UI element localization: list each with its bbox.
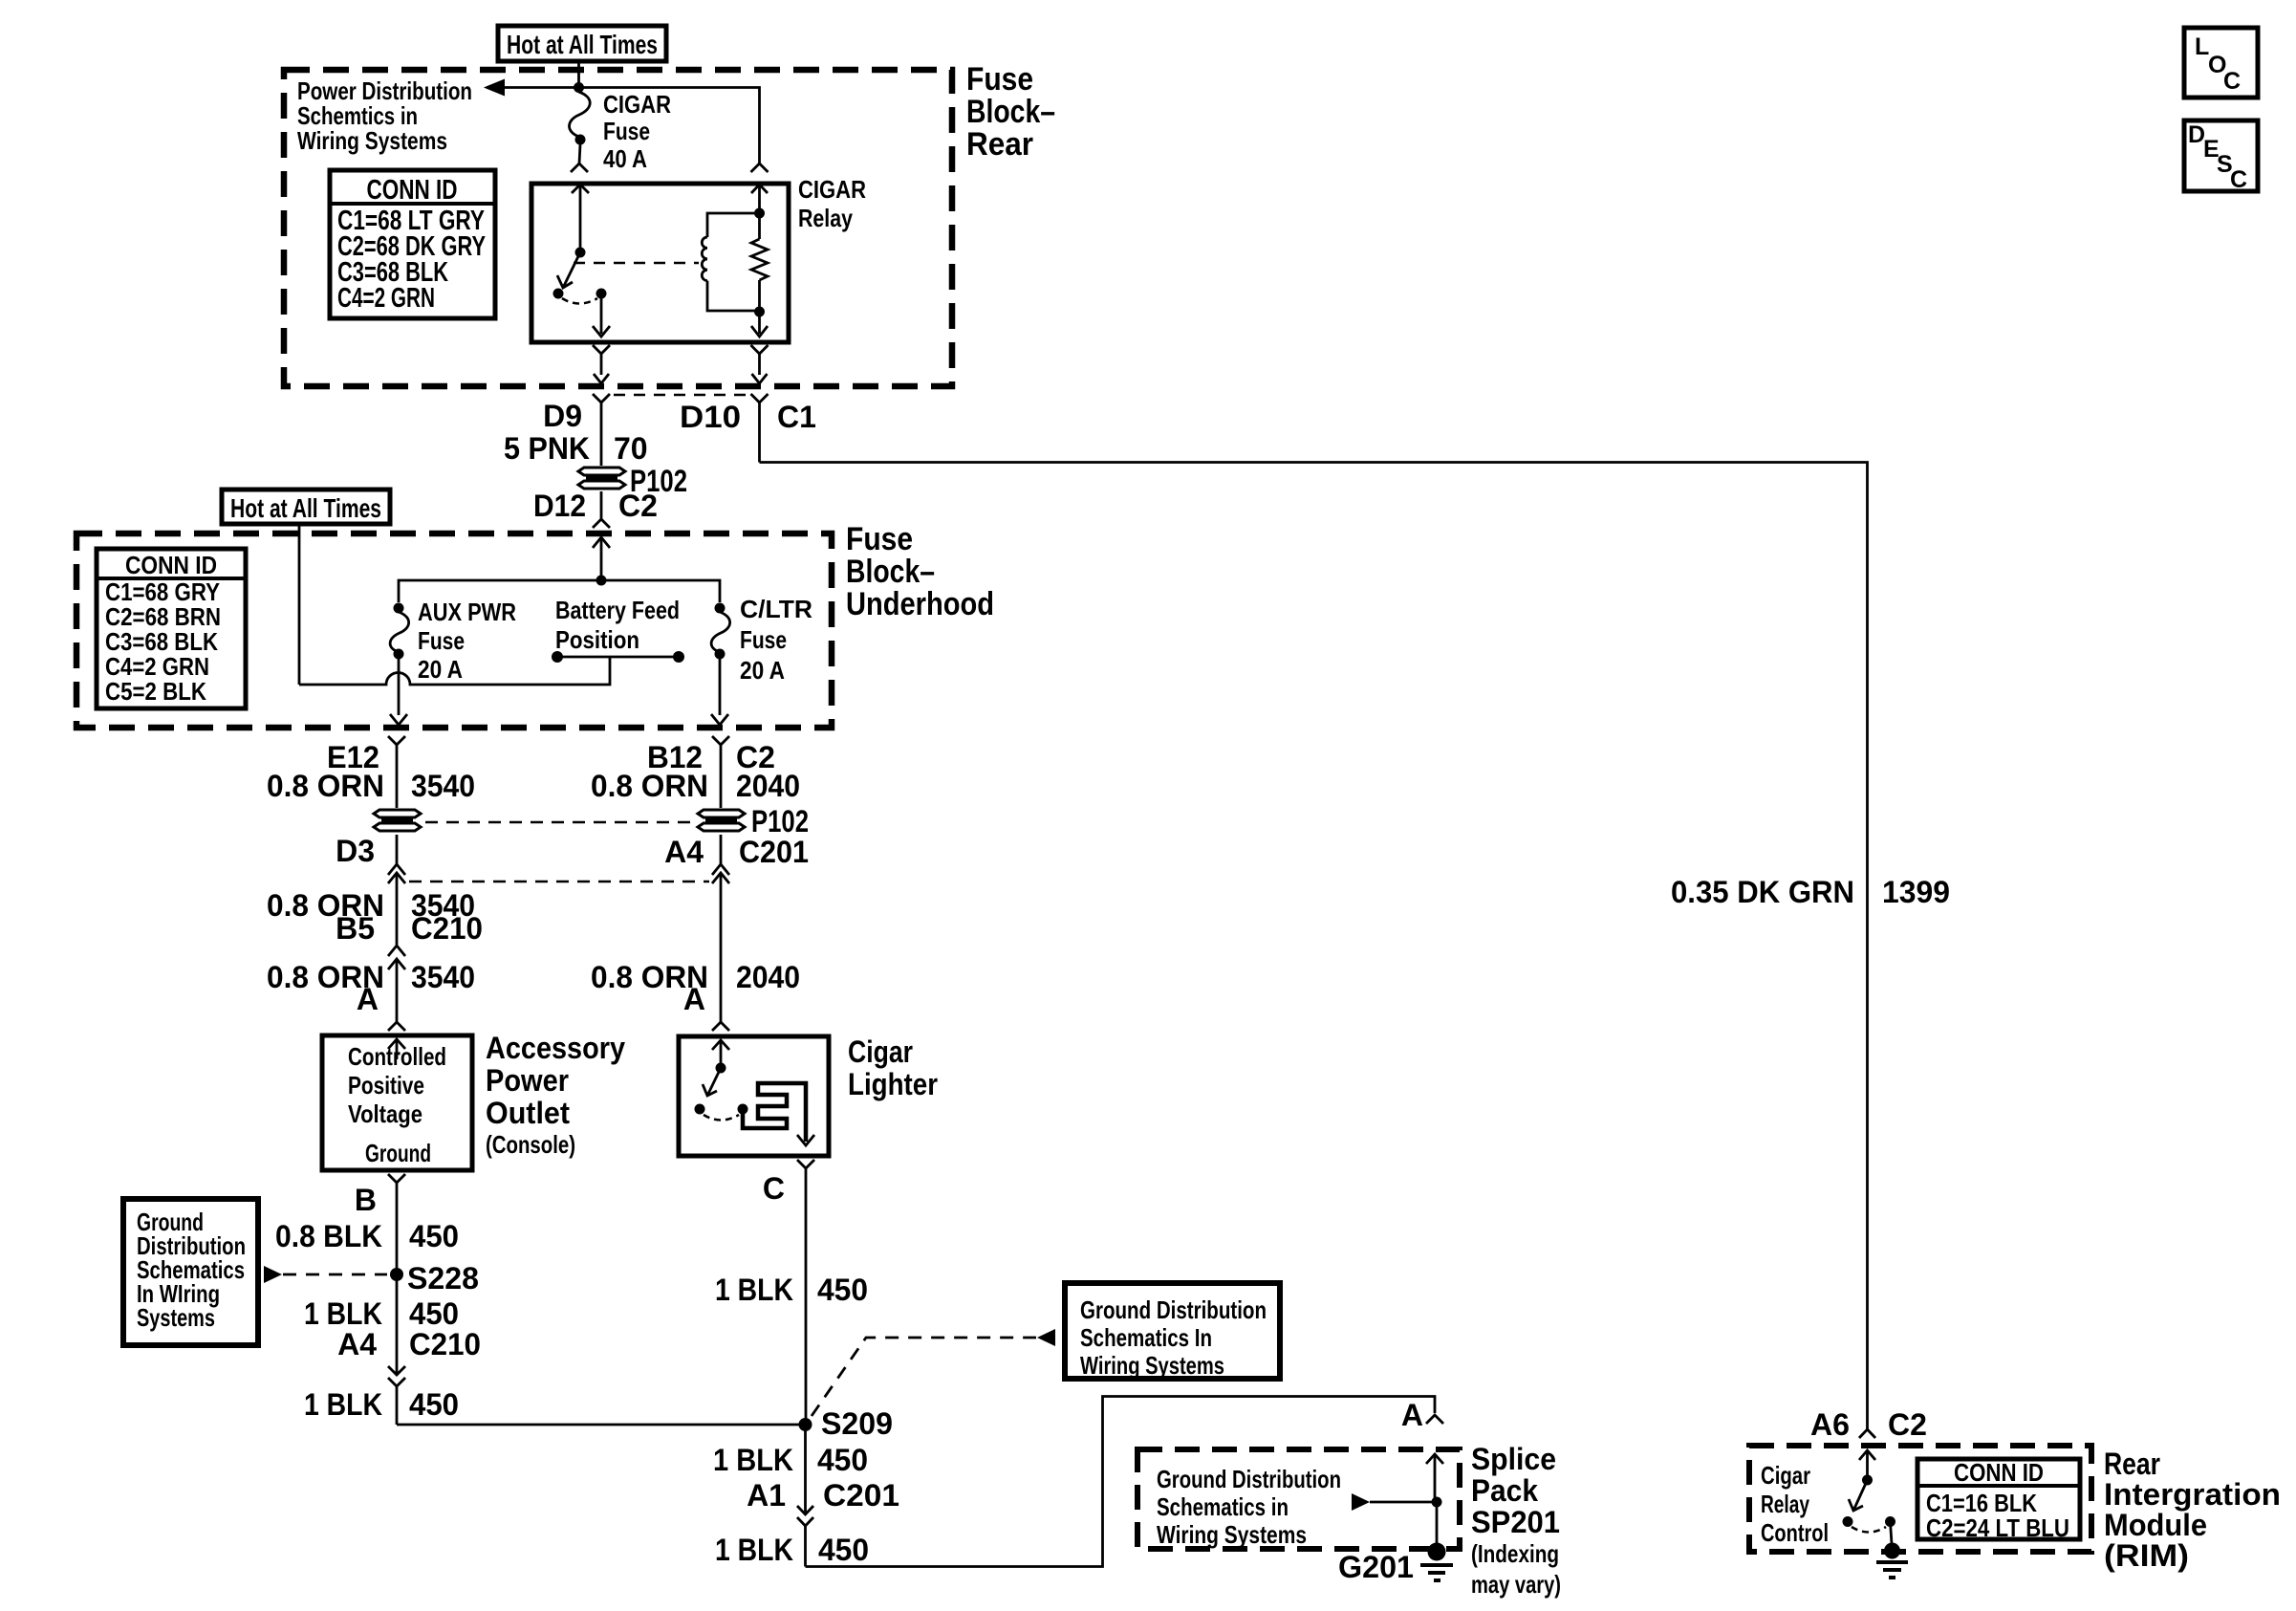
svg-text:450: 450: [409, 1219, 459, 1253]
svg-text:450: 450: [818, 1533, 869, 1567]
svg-text:Hot at All Times: Hot at All Times: [507, 30, 658, 59]
svg-text:Ground: Ground: [365, 1139, 431, 1167]
svg-text:Relay: Relay: [1761, 1490, 1809, 1518]
svg-text:C1: C1: [777, 400, 816, 434]
connector fork into relay (right): [751, 163, 769, 172]
wire: left ground run to S209: [397, 1424, 806, 1426]
relay resistor: [751, 184, 768, 317]
svg-text:Schematics In: Schematics In: [1080, 1323, 1212, 1352]
svg-text:Rear: Rear: [966, 126, 1033, 163]
fuse CIGAR 40A symbol: [570, 92, 591, 163]
connector fork C1: [751, 394, 769, 463]
label 0.35 DK GRN 1399: [1671, 875, 1950, 909]
connector fork B12: [712, 736, 729, 808]
dashed reference line to S228: [264, 1266, 387, 1283]
connector fork into splice pack: [1426, 1415, 1443, 1424]
svg-text:Power: Power: [486, 1063, 569, 1098]
svg-text:A4: A4: [664, 835, 704, 869]
svg-text:CIGAR: CIGAR: [603, 90, 671, 119]
connector fork into accessory outlet: [388, 1022, 405, 1031]
label 1 BLK 450 (bottom): [715, 1533, 869, 1567]
svg-text:AUX PWR: AUX PWR: [418, 598, 516, 626]
label: Power Distribution Schemtics in Wiring Systems: [297, 76, 472, 155]
svg-text:C2: C2: [1888, 1407, 1927, 1442]
svg-text:2040: 2040: [736, 960, 800, 994]
svg-text:3540: 3540: [411, 960, 475, 994]
svg-text:C: C: [2223, 68, 2241, 95]
svg-text:A1: A1: [747, 1478, 786, 1513]
relay switch common leg: [572, 184, 589, 258]
svg-text:3540: 3540: [411, 769, 475, 803]
Ground Distribution Schematics box (right): [1065, 1283, 1280, 1380]
label A4 C201: [664, 835, 809, 869]
svg-text:L: L: [2195, 33, 2209, 60]
svg-text:Fuse: Fuse: [966, 61, 1033, 98]
wire: fuse bus: [399, 580, 720, 602]
splice pack entry arrow: [1426, 1454, 1443, 1503]
svg-text:Fuse: Fuse: [846, 521, 913, 557]
svg-text:Lighter: Lighter: [848, 1067, 938, 1101]
Hot at All Times label box (rear): [498, 26, 666, 61]
label A6 C2: [1810, 1407, 1927, 1442]
Rear Integration Module dashed box: [1749, 1446, 2091, 1552]
label: Cigar Relay Control: [1761, 1461, 1829, 1547]
label B12 C2: [647, 740, 775, 774]
svg-text:D12: D12: [533, 489, 586, 523]
svg-text:0.8 BLK: 0.8 BLK: [275, 1219, 382, 1253]
RIM cigar relay control switch: [1843, 1450, 1896, 1533]
label 1 BLK 450 (cigar): [715, 1273, 868, 1307]
label: Rear Intergration Module (RIM): [2104, 1447, 2281, 1573]
relay coil output leg: [751, 312, 768, 337]
svg-text:1 BLK: 1 BLK: [715, 1533, 793, 1567]
label: C/LTR Fuse 20 A: [740, 595, 812, 685]
svg-text:Controlled: Controlled: [348, 1042, 446, 1071]
connector fork C below cigar lighter: [797, 1160, 814, 1425]
label: CIGAR Relay: [798, 175, 866, 232]
svg-text:Module: Module: [2104, 1508, 2207, 1542]
svg-text:C4=2 GRN: C4=2 GRN: [337, 283, 435, 314]
label 1 BLK 450 (below S209): [713, 1443, 868, 1477]
svg-text:1 BLK: 1 BLK: [713, 1443, 793, 1477]
svg-text:Fuse: Fuse: [418, 626, 465, 655]
svg-text:Rear: Rear: [2104, 1447, 2160, 1481]
wire: ground run to splice pack: [806, 1397, 1436, 1567]
svg-text:450: 450: [409, 1296, 459, 1331]
svg-text:Control: Control: [1761, 1518, 1829, 1547]
label 0.8 ORN 3540 (1): [267, 769, 475, 803]
node: bus junction: [596, 576, 607, 586]
connector P102 (D9/D12 pass-through): [578, 468, 625, 489]
connector fork E12: [388, 736, 405, 808]
relay control dashed link: [574, 262, 699, 265]
label: Battery Feed Position: [555, 596, 680, 654]
svg-text:450: 450: [409, 1387, 459, 1422]
svg-text:Accessory: Accessory: [486, 1031, 625, 1065]
LOC reference box: [2184, 28, 2258, 98]
connector fork into cigar lighter: [712, 1022, 729, 1031]
CONN ID table (RIM): [1917, 1458, 2080, 1542]
label: CIGAR Fuse 40 A: [603, 90, 671, 173]
wire: hot feed 2 down and battery feed link: [299, 524, 610, 685]
label: Splice Pack SP201 (Indexing may vary): [1471, 1442, 1561, 1599]
label 0.8 BLK 450: [275, 1219, 459, 1253]
dashed reference line S209 to ground distribution box: [812, 1329, 1055, 1416]
svg-text:Wiring Systems: Wiring Systems: [1157, 1520, 1307, 1549]
splice pack internal feed arrow: [1352, 1493, 1442, 1511]
svg-text:A: A: [1401, 1398, 1423, 1432]
label D12 C2: [533, 489, 658, 523]
wire: cigar relay control run (C1 to RIM): [760, 463, 1868, 1430]
node S228 splice: [390, 1268, 403, 1281]
svg-text:S228: S228: [407, 1261, 479, 1295]
svg-text:Fuse: Fuse: [740, 625, 787, 654]
svg-text:Voltage: Voltage: [348, 1099, 422, 1128]
svg-text:Splice: Splice: [1471, 1442, 1556, 1476]
svg-text:Cigar: Cigar: [1761, 1461, 1810, 1490]
connector: relay out left (D9 half): [593, 345, 610, 383]
svg-text:Systems: Systems: [137, 1303, 215, 1332]
svg-text:C2=24 LT BLU: C2=24 LT BLU: [1926, 1513, 2069, 1542]
svg-text:B: B: [355, 1183, 377, 1217]
svg-text:may vary): may vary): [1471, 1570, 1561, 1599]
svg-text:CIGAR: CIGAR: [798, 175, 866, 204]
svg-text:Ground Distribution: Ground Distribution: [1157, 1465, 1341, 1493]
svg-text:C: C: [2230, 166, 2247, 193]
svg-text:1 BLK: 1 BLK: [304, 1387, 382, 1422]
fuse AUX PWR symbol: [390, 603, 409, 726]
svg-text:A: A: [357, 982, 379, 1016]
connector chevrons A4/C210 down: [388, 1366, 405, 1425]
svg-text:Wiring Systems: Wiring Systems: [1080, 1351, 1224, 1380]
connector tie line P102 pair: [425, 821, 693, 824]
svg-text:Wiring Systems: Wiring Systems: [297, 126, 447, 155]
Fuse Block-Underhood dashed enclosure: [76, 521, 994, 728]
svg-text:70: 70: [614, 431, 648, 466]
svg-text:Positive: Positive: [348, 1071, 424, 1099]
svg-text:Fuse: Fuse: [603, 117, 650, 145]
wire below P102 right: [720, 835, 723, 865]
Accessory Power Outlet box: [322, 1035, 472, 1170]
label 0.8 ORN 3540 (3): [267, 960, 475, 994]
svg-text:0.8 ORN: 0.8 ORN: [591, 769, 708, 803]
svg-text:Underhood: Underhood: [846, 586, 994, 622]
label 0.8 ORN 3540 (2): [267, 888, 475, 923]
connector: relay out right (D10 half): [751, 345, 769, 383]
label: Controlled Positive Voltage / Ground: [348, 1042, 446, 1167]
Ground Distribution Schematics box (left): [123, 1199, 258, 1345]
label: Ground Distribution Schematics in Wiring Systems (splice): [1157, 1465, 1341, 1549]
svg-text:A6: A6: [1810, 1407, 1850, 1442]
connector chevrons A1/C201 down: [797, 1425, 813, 1567]
svg-text:(Console): (Console): [486, 1130, 575, 1159]
label B5 C210: [336, 911, 483, 946]
svg-text:1399: 1399: [1882, 875, 1950, 909]
relay switch arm: [553, 252, 607, 304]
connector fork D12 into underhood: [593, 491, 610, 528]
svg-text:Relay: Relay: [798, 204, 853, 232]
svg-text:Ground Distribution: Ground Distribution: [1080, 1295, 1267, 1324]
svg-text:1 BLK: 1 BLK: [715, 1273, 793, 1307]
svg-text:A: A: [683, 982, 705, 1016]
svg-text:(RIM): (RIM): [2104, 1538, 2189, 1573]
connector chevrons C201 up (right): [712, 864, 729, 1022]
svg-text:C210: C210: [409, 1327, 481, 1361]
svg-text:Block–: Block–: [966, 94, 1055, 130]
svg-text:450: 450: [817, 1443, 868, 1477]
wire below P102 left: [396, 835, 399, 865]
CONN ID table (fuse block rear): [330, 170, 495, 318]
connector tie line D9-D10: [614, 394, 747, 397]
connector chevrons below B5: [388, 946, 405, 1022]
cigar lighter switch: [695, 1040, 748, 1121]
svg-text:20 A: 20 A: [740, 656, 785, 685]
svg-text:Battery Feed: Battery Feed: [555, 596, 680, 624]
label 0.8 ORN 2040 (1): [591, 769, 800, 803]
svg-text:5 PNK: 5 PNK: [504, 431, 590, 466]
svg-text:Outlet: Outlet: [486, 1096, 570, 1130]
svg-text:C/LTR: C/LTR: [740, 595, 812, 623]
connector fork into relay (left): [571, 163, 588, 172]
svg-text:G201: G201: [1338, 1550, 1414, 1584]
svg-text:D9: D9: [543, 399, 582, 433]
accessory outlet input arrow: [388, 1039, 405, 1059]
ground G201 symbol: [1420, 1502, 1453, 1580]
svg-text:(Indexing: (Indexing: [1471, 1539, 1559, 1568]
label 5 PNK 70: [504, 431, 648, 466]
svg-text:A4: A4: [337, 1327, 377, 1361]
node: feed junction: [574, 82, 584, 93]
svg-text:S209: S209: [821, 1406, 893, 1441]
wire: power distribution branch with arrow: [484, 79, 760, 164]
svg-text:Hot at All Times: Hot at All Times: [230, 493, 381, 523]
svg-text:D10: D10: [680, 400, 741, 434]
svg-text:Cigar: Cigar: [848, 1034, 913, 1069]
battery feed position bar: [552, 651, 684, 663]
svg-text:Pack: Pack: [1471, 1473, 1538, 1508]
svg-text:C2: C2: [618, 489, 658, 523]
connector tie line C210-C201: [409, 881, 709, 883]
relay CIGAR Relay box: [531, 184, 789, 342]
svg-text:0.8 ORN: 0.8 ORN: [267, 769, 384, 803]
svg-text:2040: 2040: [736, 769, 800, 803]
svg-text:C5=2 BLK: C5=2 BLK: [105, 677, 206, 706]
relay switch output leg: [593, 294, 610, 337]
svg-text:P102: P102: [751, 804, 809, 838]
svg-text:SP201: SP201: [1471, 1505, 1560, 1539]
svg-text:0.35 DK GRN: 0.35 DK GRN: [1671, 875, 1854, 909]
label: Cigar Lighter: [848, 1034, 938, 1101]
connector P102 (B12/A4 pass-through): [698, 810, 745, 831]
svg-text:C201: C201: [823, 1478, 899, 1513]
svg-text:C210: C210: [411, 911, 483, 946]
svg-text:Intergration: Intergration: [2104, 1477, 2281, 1512]
svg-text:Schematics in: Schematics in: [1157, 1492, 1289, 1521]
connector fork B below accessory outlet: [388, 1174, 405, 1375]
label: Accessory Power Outlet (Console): [486, 1031, 625, 1159]
svg-text:20 A: 20 A: [418, 655, 463, 684]
svg-text:CONN ID: CONN ID: [125, 551, 217, 579]
label 1 BLK 450 (left-2): [304, 1387, 459, 1422]
label A1 C201: [747, 1478, 899, 1513]
Hot at All Times label box (underhood): [222, 490, 390, 524]
svg-text:40 A: 40 A: [603, 144, 647, 173]
svg-text:D3: D3: [336, 834, 375, 868]
svg-text:450: 450: [817, 1273, 868, 1307]
svg-text:Position: Position: [555, 625, 639, 654]
svg-text:C: C: [763, 1171, 785, 1206]
label 1 BLK 450 (left-1): [304, 1296, 459, 1331]
connector fork A6 into RIM: [1859, 1429, 1875, 1438]
DESC reference box: [2184, 120, 2258, 193]
node S209 splice: [799, 1418, 812, 1431]
connector chevrons C210 up (left): [388, 864, 405, 945]
cigar lighter heating element: [743, 1083, 814, 1145]
wire: hot feed into fuse block rear: [577, 61, 580, 88]
label: AUX PWR Fuse 20 A: [418, 598, 516, 684]
svg-text:CONN ID: CONN ID: [1954, 1458, 2044, 1487]
fuse C/LTR symbol: [711, 603, 730, 726]
wire entry into underhood block: [593, 537, 610, 580]
svg-text:C201: C201: [739, 835, 809, 869]
svg-text:Block–: Block–: [846, 554, 935, 590]
Cigar Lighter box: [679, 1036, 829, 1156]
CONN ID table (fuse block underhood): [97, 549, 246, 708]
Splice Pack dashed box: [1137, 1449, 1460, 1549]
svg-text:1 BLK: 1 BLK: [304, 1296, 382, 1331]
relay coil: [702, 208, 765, 312]
RIM internal ground: [1876, 1522, 1908, 1578]
label A4 C210: [337, 1327, 481, 1361]
Fuse Block-Rear dashed enclosure: [284, 61, 1055, 386]
label 0.8 ORN 2040 (2): [591, 960, 800, 994]
svg-text:CONN ID: CONN ID: [367, 175, 458, 206]
connector P102 (E12/D3 pass-through): [374, 810, 421, 831]
connector fork D9: [593, 394, 610, 466]
svg-text:B5: B5: [336, 911, 375, 946]
